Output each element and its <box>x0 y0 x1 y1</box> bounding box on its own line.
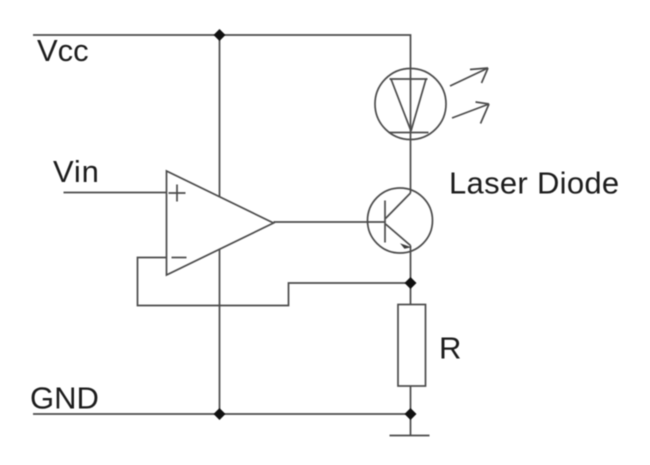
svg-text:GND: GND <box>30 381 99 416</box>
svg-text:Vin: Vin <box>53 154 100 189</box>
svg-text:Vcc: Vcc <box>37 33 89 68</box>
svg-text:Laser Diode: Laser Diode <box>449 166 619 201</box>
svg-text:R: R <box>439 331 461 366</box>
